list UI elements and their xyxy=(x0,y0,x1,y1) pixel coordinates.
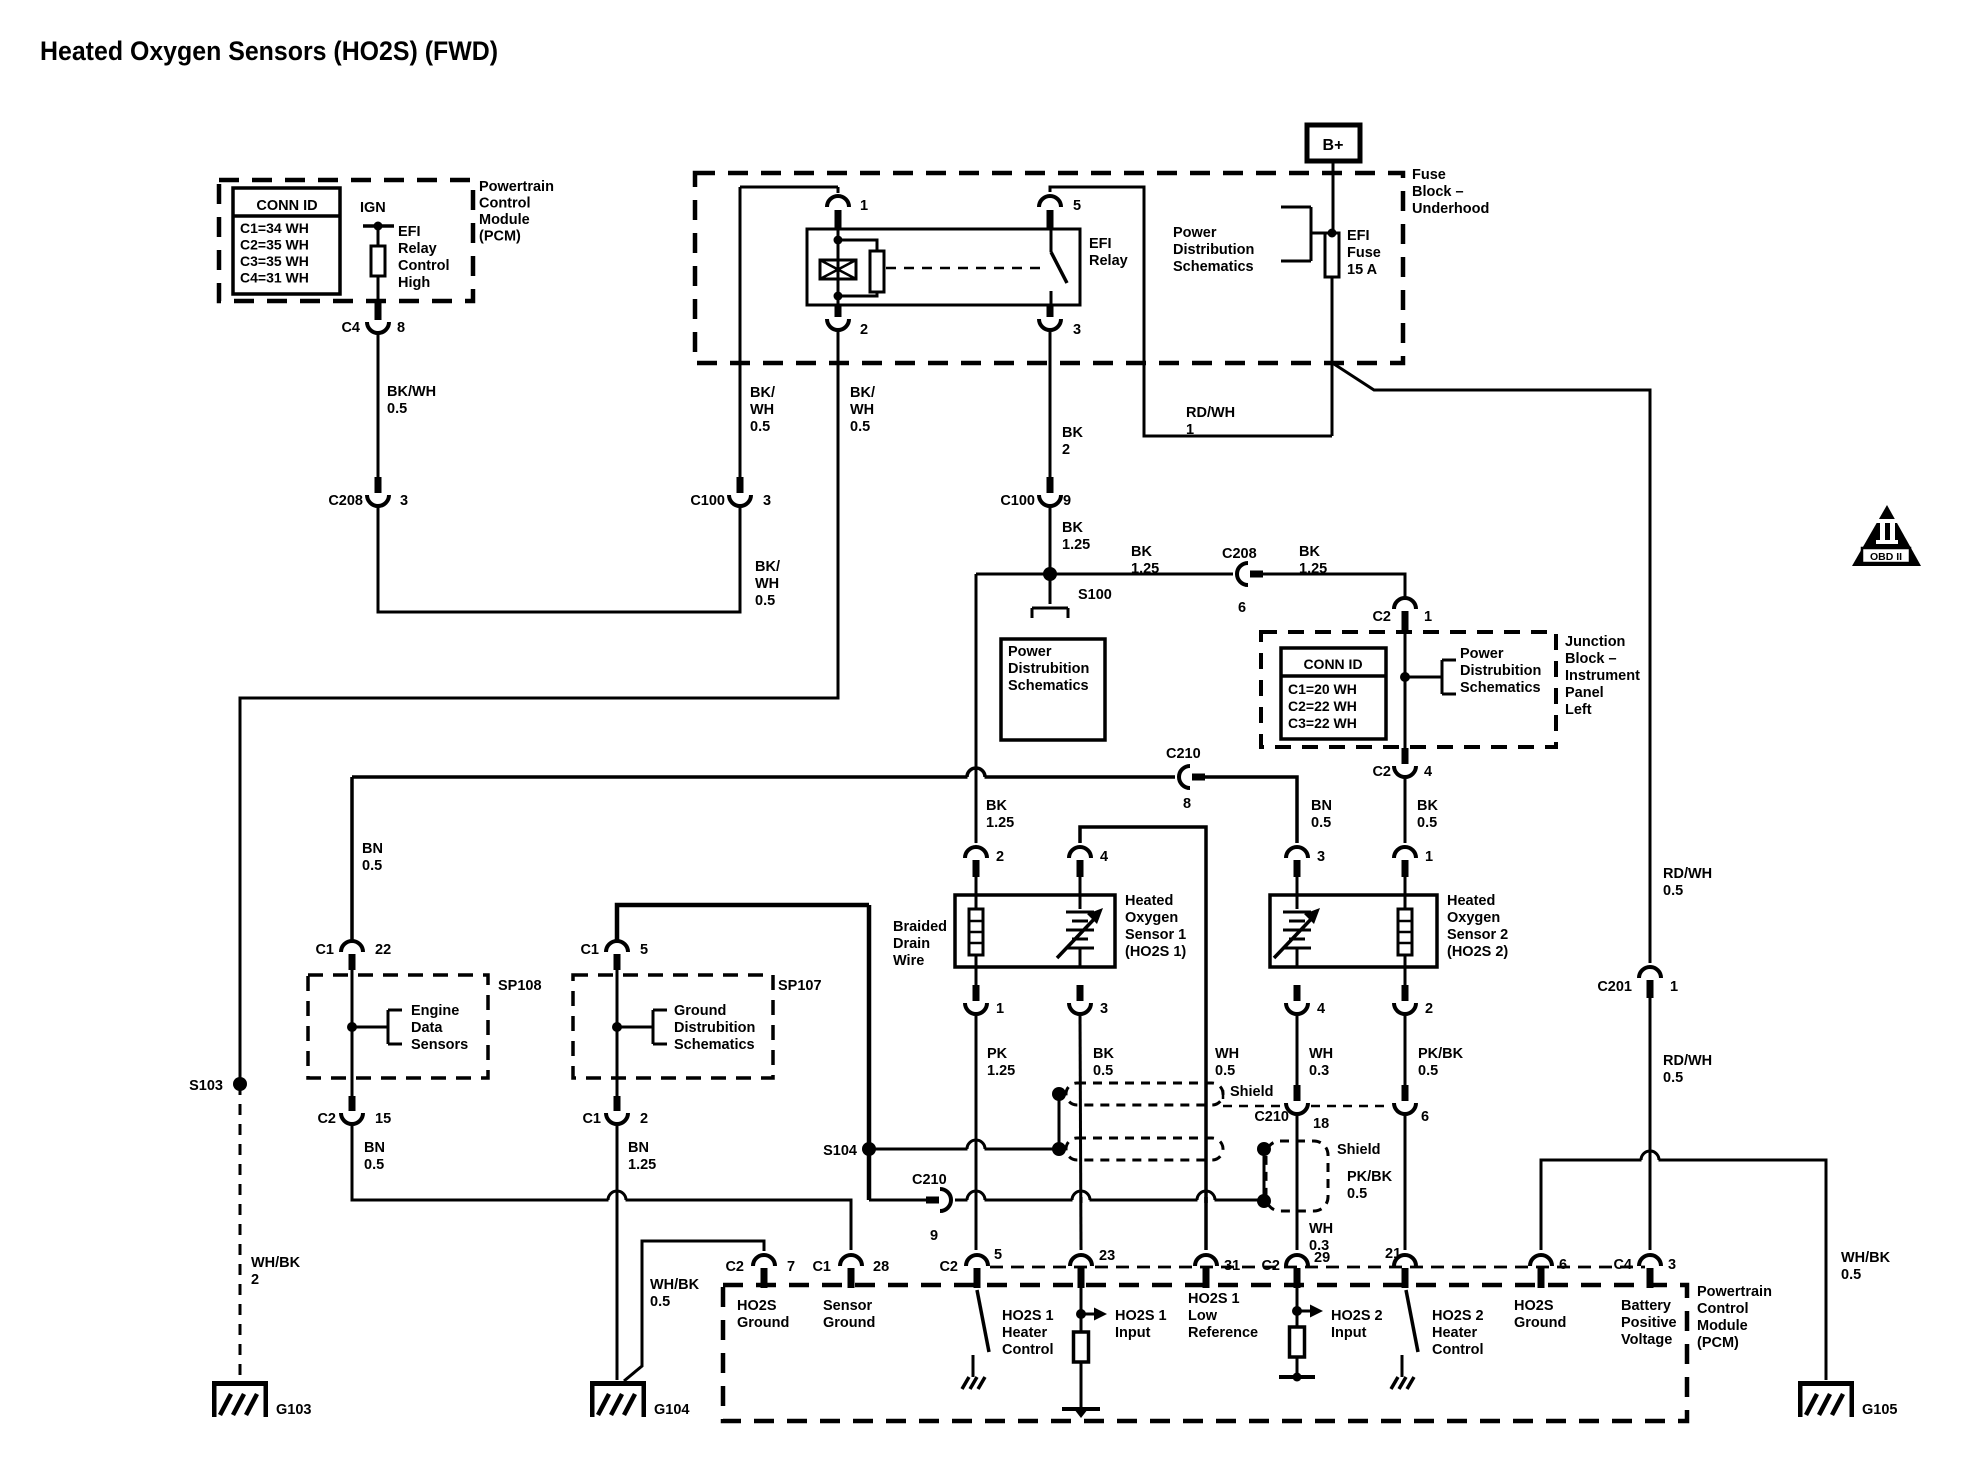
svg-text:9: 9 xyxy=(930,1228,938,1244)
svg-text:1: 1 xyxy=(1425,849,1433,865)
svg-text:Schematics: Schematics xyxy=(1173,259,1254,275)
svg-text:Block –: Block – xyxy=(1565,651,1617,667)
svg-text:S103: S103 xyxy=(189,1078,223,1094)
svg-text:0.5: 0.5 xyxy=(1093,1063,1113,1079)
svg-text:0.5: 0.5 xyxy=(364,1157,384,1173)
svg-text:BK: BK xyxy=(986,798,1007,814)
svg-text:29: 29 xyxy=(1314,1250,1330,1266)
svg-text:Ground: Ground xyxy=(674,1003,726,1019)
svg-text:8: 8 xyxy=(1183,796,1191,812)
svg-text:Control: Control xyxy=(1002,1342,1054,1358)
svg-text:0.3: 0.3 xyxy=(1309,1063,1329,1079)
svg-text:2: 2 xyxy=(860,322,868,338)
svg-text:4: 4 xyxy=(1424,764,1432,780)
svg-text:1.25: 1.25 xyxy=(1131,561,1159,577)
svg-text:Shield: Shield xyxy=(1337,1142,1381,1158)
svg-text:RD/WH: RD/WH xyxy=(1663,866,1712,882)
svg-text:C4=31 WH: C4=31 WH xyxy=(240,270,309,286)
svg-text:C1: C1 xyxy=(812,1259,831,1275)
svg-text:BN: BN xyxy=(1311,798,1332,814)
svg-text:Positive: Positive xyxy=(1621,1315,1677,1331)
svg-text:Data: Data xyxy=(411,1020,443,1036)
svg-text:WH/BK: WH/BK xyxy=(251,1255,301,1271)
svg-text:BN: BN xyxy=(628,1140,649,1156)
svg-text:1.25: 1.25 xyxy=(986,815,1014,831)
svg-text:3: 3 xyxy=(400,493,408,509)
svg-text:BK/: BK/ xyxy=(750,385,775,401)
svg-text:Drain: Drain xyxy=(893,936,930,952)
svg-text:Relay: Relay xyxy=(398,241,437,257)
svg-text:Oxygen: Oxygen xyxy=(1447,910,1500,926)
svg-text:G103: G103 xyxy=(276,1402,311,1418)
svg-text:OBD II: OBD II xyxy=(1870,551,1902,563)
svg-text:Distribution: Distribution xyxy=(1173,242,1254,258)
svg-text:9: 9 xyxy=(1063,493,1071,509)
svg-text:7: 7 xyxy=(787,1259,795,1275)
svg-text:C2: C2 xyxy=(1372,609,1391,625)
svg-text:C1: C1 xyxy=(582,1111,601,1127)
svg-text:Ground: Ground xyxy=(823,1315,875,1331)
svg-text:C2: C2 xyxy=(1372,764,1391,780)
svg-text:HO2S 1: HO2S 1 xyxy=(1115,1308,1167,1324)
svg-text:PK/BK: PK/BK xyxy=(1347,1169,1393,1185)
svg-text:Powertrain: Powertrain xyxy=(1697,1284,1772,1300)
svg-text:EFI: EFI xyxy=(1347,228,1370,244)
svg-text:Shield: Shield xyxy=(1230,1084,1274,1100)
svg-text:BK/: BK/ xyxy=(850,385,875,401)
svg-text:1: 1 xyxy=(1424,609,1432,625)
svg-text:CONN ID: CONN ID xyxy=(256,198,317,214)
svg-text:3: 3 xyxy=(1073,322,1081,338)
svg-text:Distrubition: Distrubition xyxy=(1460,663,1541,679)
svg-text:(HO2S 1): (HO2S 1) xyxy=(1125,944,1186,960)
svg-text:4: 4 xyxy=(1100,849,1108,865)
svg-text:28: 28 xyxy=(873,1259,889,1275)
svg-text:Braided: Braided xyxy=(893,919,947,935)
svg-text:(HO2S 2): (HO2S 2) xyxy=(1447,944,1508,960)
svg-text:Schematics: Schematics xyxy=(1460,680,1541,696)
svg-text:WH/BK: WH/BK xyxy=(1841,1250,1891,1266)
svg-text:IGN: IGN xyxy=(360,200,386,216)
svg-text:1.25: 1.25 xyxy=(1062,537,1090,553)
svg-text:Ground: Ground xyxy=(737,1315,789,1331)
svg-text:WH: WH xyxy=(750,402,774,418)
svg-text:WH/BK: WH/BK xyxy=(650,1277,700,1293)
svg-text:6: 6 xyxy=(1421,1109,1429,1125)
svg-text:Sensors: Sensors xyxy=(411,1037,468,1053)
svg-text:Wire: Wire xyxy=(893,953,924,969)
svg-text:C1: C1 xyxy=(580,942,599,958)
svg-text:0.5: 0.5 xyxy=(1215,1063,1235,1079)
svg-text:C208: C208 xyxy=(328,493,363,509)
svg-text:HO2S 2: HO2S 2 xyxy=(1432,1308,1484,1324)
svg-text:Input: Input xyxy=(1331,1325,1367,1341)
svg-text:5: 5 xyxy=(1073,198,1081,214)
svg-text:1: 1 xyxy=(996,1001,1004,1017)
svg-text:2: 2 xyxy=(251,1272,259,1288)
svg-text:3: 3 xyxy=(763,493,771,509)
svg-text:6: 6 xyxy=(1238,600,1246,616)
svg-text:15 A: 15 A xyxy=(1347,262,1378,278)
svg-text:WH: WH xyxy=(1215,1046,1239,1062)
svg-text:21: 21 xyxy=(1385,1246,1401,1262)
svg-text:Distrubition: Distrubition xyxy=(1008,661,1089,677)
svg-text:CONN ID: CONN ID xyxy=(1303,656,1362,672)
svg-text:C100: C100 xyxy=(690,493,725,509)
svg-text:EFI: EFI xyxy=(1089,236,1112,252)
svg-text:S100: S100 xyxy=(1078,587,1112,603)
svg-text:Panel: Panel xyxy=(1565,685,1604,701)
svg-text:Power: Power xyxy=(1008,644,1052,660)
svg-text:HO2S 1: HO2S 1 xyxy=(1002,1308,1054,1324)
svg-text:Fuse: Fuse xyxy=(1347,245,1381,261)
svg-text:Schematics: Schematics xyxy=(674,1037,755,1053)
svg-text:0.5: 0.5 xyxy=(1347,1186,1367,1202)
svg-text:Relay: Relay xyxy=(1089,253,1128,269)
svg-text:C1: C1 xyxy=(315,942,334,958)
svg-text:Voltage: Voltage xyxy=(1621,1332,1672,1348)
svg-text:1: 1 xyxy=(1186,422,1194,438)
svg-text:G104: G104 xyxy=(654,1402,689,1418)
svg-text:BK: BK xyxy=(1417,798,1438,814)
svg-text:Ground: Ground xyxy=(1514,1315,1566,1331)
svg-text:23: 23 xyxy=(1099,1248,1115,1264)
svg-text:Schematics: Schematics xyxy=(1008,678,1089,694)
svg-text:C2: C2 xyxy=(317,1111,336,1127)
svg-text:Low: Low xyxy=(1188,1308,1218,1324)
svg-text:1: 1 xyxy=(860,198,868,214)
svg-text:S104: S104 xyxy=(823,1143,857,1159)
svg-text:BK/WH: BK/WH xyxy=(387,384,436,400)
svg-text:BN: BN xyxy=(362,841,383,857)
svg-text:1.25: 1.25 xyxy=(987,1063,1015,1079)
svg-text:Instrument: Instrument xyxy=(1565,668,1640,684)
svg-text:1.25: 1.25 xyxy=(628,1157,656,1173)
svg-text:2: 2 xyxy=(1425,1001,1433,1017)
svg-text:0.5: 0.5 xyxy=(1311,815,1331,831)
svg-text:Module: Module xyxy=(479,212,530,228)
svg-text:0.5: 0.5 xyxy=(650,1294,670,1310)
svg-text:WH: WH xyxy=(850,402,874,418)
svg-text:EFI: EFI xyxy=(398,224,421,240)
svg-text:High: High xyxy=(398,275,430,291)
svg-text:Powertrain: Powertrain xyxy=(479,179,554,195)
svg-text:31: 31 xyxy=(1224,1258,1240,1274)
svg-text:PK: PK xyxy=(987,1046,1008,1062)
svg-text:5: 5 xyxy=(994,1247,1002,1263)
svg-text:Sensor: Sensor xyxy=(823,1298,873,1314)
svg-text:0.5: 0.5 xyxy=(362,858,382,874)
svg-text:G105: G105 xyxy=(1862,1402,1897,1418)
svg-text:2: 2 xyxy=(996,849,1004,865)
svg-text:Power: Power xyxy=(1173,225,1217,241)
svg-text:C2=35 WH: C2=35 WH xyxy=(240,237,309,253)
svg-text:HO2S 2: HO2S 2 xyxy=(1331,1308,1383,1324)
svg-text:Heated: Heated xyxy=(1447,893,1495,909)
svg-text:WH: WH xyxy=(1309,1221,1333,1237)
svg-text:C100: C100 xyxy=(1000,493,1035,509)
svg-text:C4: C4 xyxy=(1613,1257,1632,1273)
svg-text:Distrubition: Distrubition xyxy=(674,1020,755,1036)
svg-text:3: 3 xyxy=(1668,1257,1676,1273)
svg-text:1: 1 xyxy=(1670,979,1678,995)
svg-text:C210: C210 xyxy=(1166,746,1201,762)
svg-text:Left: Left xyxy=(1565,702,1592,718)
svg-text:C210: C210 xyxy=(1254,1109,1289,1125)
svg-text:(PCM): (PCM) xyxy=(1697,1335,1739,1351)
svg-text:5: 5 xyxy=(640,942,648,958)
svg-text:Battery: Battery xyxy=(1621,1298,1671,1314)
svg-text:0.5: 0.5 xyxy=(1663,1070,1683,1086)
svg-text:Heated Oxygen Sensors (HO2S) (: Heated Oxygen Sensors (HO2S) (FWD) xyxy=(40,36,498,66)
svg-text:0.5: 0.5 xyxy=(850,419,870,435)
svg-text:Control: Control xyxy=(1432,1342,1484,1358)
svg-text:Junction: Junction xyxy=(1565,634,1625,650)
svg-text:BK: BK xyxy=(1299,544,1320,560)
svg-text:C3=22 WH: C3=22 WH xyxy=(1288,715,1357,731)
svg-text:0.5: 0.5 xyxy=(1418,1063,1438,1079)
svg-text:BK/: BK/ xyxy=(755,559,780,575)
svg-text:C1=20 WH: C1=20 WH xyxy=(1288,681,1357,697)
svg-text:Oxygen: Oxygen xyxy=(1125,910,1178,926)
svg-text:Heater: Heater xyxy=(1432,1325,1477,1341)
svg-text:C3=35 WH: C3=35 WH xyxy=(240,253,309,269)
svg-text:Fuse: Fuse xyxy=(1412,167,1446,183)
svg-text:Underhood: Underhood xyxy=(1412,201,1489,217)
svg-text:22: 22 xyxy=(375,942,391,958)
svg-text:0.5: 0.5 xyxy=(750,419,770,435)
svg-text:Reference: Reference xyxy=(1188,1325,1258,1341)
svg-text:WH: WH xyxy=(755,576,779,592)
svg-text:RD/WH: RD/WH xyxy=(1186,405,1235,421)
svg-text:BN: BN xyxy=(364,1140,385,1156)
svg-text:PK/BK: PK/BK xyxy=(1418,1046,1464,1062)
svg-text:(PCM): (PCM) xyxy=(479,229,521,245)
svg-text:BK: BK xyxy=(1062,520,1083,536)
svg-text:8: 8 xyxy=(397,320,405,336)
svg-text:2: 2 xyxy=(1062,442,1070,458)
svg-text:C201: C201 xyxy=(1597,979,1632,995)
svg-text:C4: C4 xyxy=(341,320,360,336)
svg-text:C210: C210 xyxy=(912,1172,947,1188)
svg-text:B+: B+ xyxy=(1323,137,1344,154)
svg-text:0.5: 0.5 xyxy=(1663,883,1683,899)
svg-text:Sensor 1: Sensor 1 xyxy=(1125,927,1186,943)
svg-text:SP108: SP108 xyxy=(498,978,542,994)
svg-text:C2: C2 xyxy=(939,1259,958,1275)
svg-text:6: 6 xyxy=(1559,1257,1567,1273)
svg-text:BK: BK xyxy=(1131,544,1152,560)
svg-text:15: 15 xyxy=(375,1111,391,1127)
svg-text:WH: WH xyxy=(1309,1046,1333,1062)
svg-text:Sensor 2: Sensor 2 xyxy=(1447,927,1508,943)
svg-text:Engine: Engine xyxy=(411,1003,459,1019)
svg-text:RD/WH: RD/WH xyxy=(1663,1053,1712,1069)
svg-text:HO2S 1: HO2S 1 xyxy=(1188,1291,1240,1307)
svg-text:C1=34 WH: C1=34 WH xyxy=(240,220,309,236)
svg-text:2: 2 xyxy=(640,1111,648,1127)
svg-text:C208: C208 xyxy=(1222,546,1257,562)
svg-text:HO2S: HO2S xyxy=(737,1298,777,1314)
svg-text:C2=22 WH: C2=22 WH xyxy=(1288,698,1357,714)
svg-text:C2: C2 xyxy=(1261,1258,1280,1274)
svg-text:18: 18 xyxy=(1313,1116,1329,1132)
svg-text:Control: Control xyxy=(398,258,450,274)
svg-text:Heater: Heater xyxy=(1002,1325,1047,1341)
svg-text:SP107: SP107 xyxy=(778,978,822,994)
svg-text:0.5: 0.5 xyxy=(1417,815,1437,831)
svg-text:Input: Input xyxy=(1115,1325,1151,1341)
svg-text:BK: BK xyxy=(1062,425,1083,441)
svg-text:Control: Control xyxy=(1697,1301,1749,1317)
svg-text:C2: C2 xyxy=(725,1259,744,1275)
svg-text:BK: BK xyxy=(1093,1046,1114,1062)
svg-text:Module: Module xyxy=(1697,1318,1748,1334)
svg-text:Heated: Heated xyxy=(1125,893,1173,909)
svg-text:3: 3 xyxy=(1317,849,1325,865)
svg-text:HO2S: HO2S xyxy=(1514,1298,1554,1314)
svg-text:Control: Control xyxy=(479,196,531,212)
svg-text:3: 3 xyxy=(1100,1001,1108,1017)
svg-text:4: 4 xyxy=(1317,1001,1325,1017)
svg-text:0.5: 0.5 xyxy=(755,593,775,609)
svg-text:Power: Power xyxy=(1460,646,1504,662)
svg-text:0.5: 0.5 xyxy=(387,401,407,417)
svg-text:0.5: 0.5 xyxy=(1841,1267,1861,1283)
svg-text:Block –: Block – xyxy=(1412,184,1464,200)
